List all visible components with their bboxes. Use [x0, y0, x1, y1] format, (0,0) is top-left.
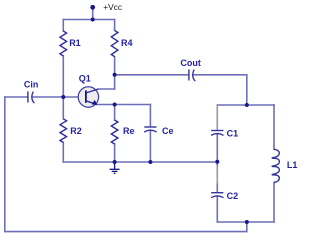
wire R4 top lead	[114, 20, 116, 31]
wire Cin left	[5, 96, 28, 98]
node base junction	[61, 95, 65, 99]
wire Vcc stem	[92, 9, 94, 20]
wire Ce top lead	[149, 105, 151, 127]
svg-text:R4: R4	[121, 38, 133, 48]
capacitor Cout	[189, 69, 196, 81]
wire Re top lead	[114, 105, 116, 121]
wire collector horizontal	[98, 88, 114, 90]
node top rail junction	[91, 18, 95, 22]
svg-text:Cout: Cout	[180, 58, 201, 68]
node Cout-tank junction	[245, 103, 249, 107]
node Ce ground junction	[148, 160, 152, 164]
wire R2 top lead	[62, 97, 64, 119]
wire gray C1-C2 segment	[216, 166, 218, 184]
wire tank bottom rail	[217, 221, 274, 223]
wire Re bottom lead	[114, 144, 116, 162]
svg-text:Cin: Cin	[24, 79, 39, 89]
wire L1 top lead	[273, 105, 275, 149]
capacitor Ce	[144, 127, 156, 132]
inductor L1	[272, 149, 279, 182]
capacitor Cin	[28, 91, 35, 103]
wire R1 bottom to base node	[62, 56, 64, 97]
resistor R1	[60, 31, 67, 56]
wire Cout line right	[194, 75, 247, 105]
resistor R4	[111, 30, 118, 56]
svg-text:C2: C2	[227, 191, 239, 201]
wire left feedback down	[4, 97, 6, 232]
wire emitter rail	[97, 104, 151, 106]
resistor R2	[60, 119, 67, 143]
wire L1 bottom lead	[273, 183, 275, 223]
wire Cout line left	[115, 74, 189, 76]
capacitor C1	[211, 131, 223, 136]
svg-text:Re: Re	[123, 126, 135, 136]
wire C1 bottom lead	[216, 135, 218, 166]
wire gray C1 top lead	[216, 105, 218, 130]
wire base lead	[33, 96, 86, 98]
svg-text:Ce: Ce	[162, 126, 174, 136]
node ground junction	[113, 160, 117, 164]
svg-text:L1: L1	[287, 160, 298, 170]
wire R4 bottom lead to collector	[114, 57, 116, 89]
node collector/Cout junction	[113, 73, 117, 77]
ground	[110, 162, 120, 173]
svg-text:C1: C1	[227, 129, 239, 139]
node emitter junction	[113, 103, 117, 107]
wire R1 top lead	[62, 20, 64, 32]
node C1-C2 junction	[215, 160, 219, 164]
svg-text:R2: R2	[70, 126, 82, 136]
wire bottom feedback	[5, 222, 247, 232]
wire top rail	[63, 19, 114, 21]
capacitor C2	[211, 193, 223, 198]
node feedback junction	[245, 220, 249, 224]
wire R2 bottom lead	[62, 143, 64, 163]
node Vcc terminal	[90, 5, 95, 10]
wire tank top rail	[217, 104, 274, 106]
wire C2 bottom lead	[216, 197, 218, 222]
wire C2 top lead blue part	[216, 184, 218, 193]
wire	[5, 9, 274, 232]
transistor Q1	[78, 87, 98, 107]
resistor Re	[111, 120, 118, 144]
wire Ce bottom lead	[149, 131, 151, 162]
wire ground rail	[63, 161, 217, 163]
svg-text:Q1: Q1	[79, 73, 91, 83]
svg-text:R1: R1	[69, 38, 81, 48]
svg-text:+Vcc: +Vcc	[103, 2, 122, 12]
